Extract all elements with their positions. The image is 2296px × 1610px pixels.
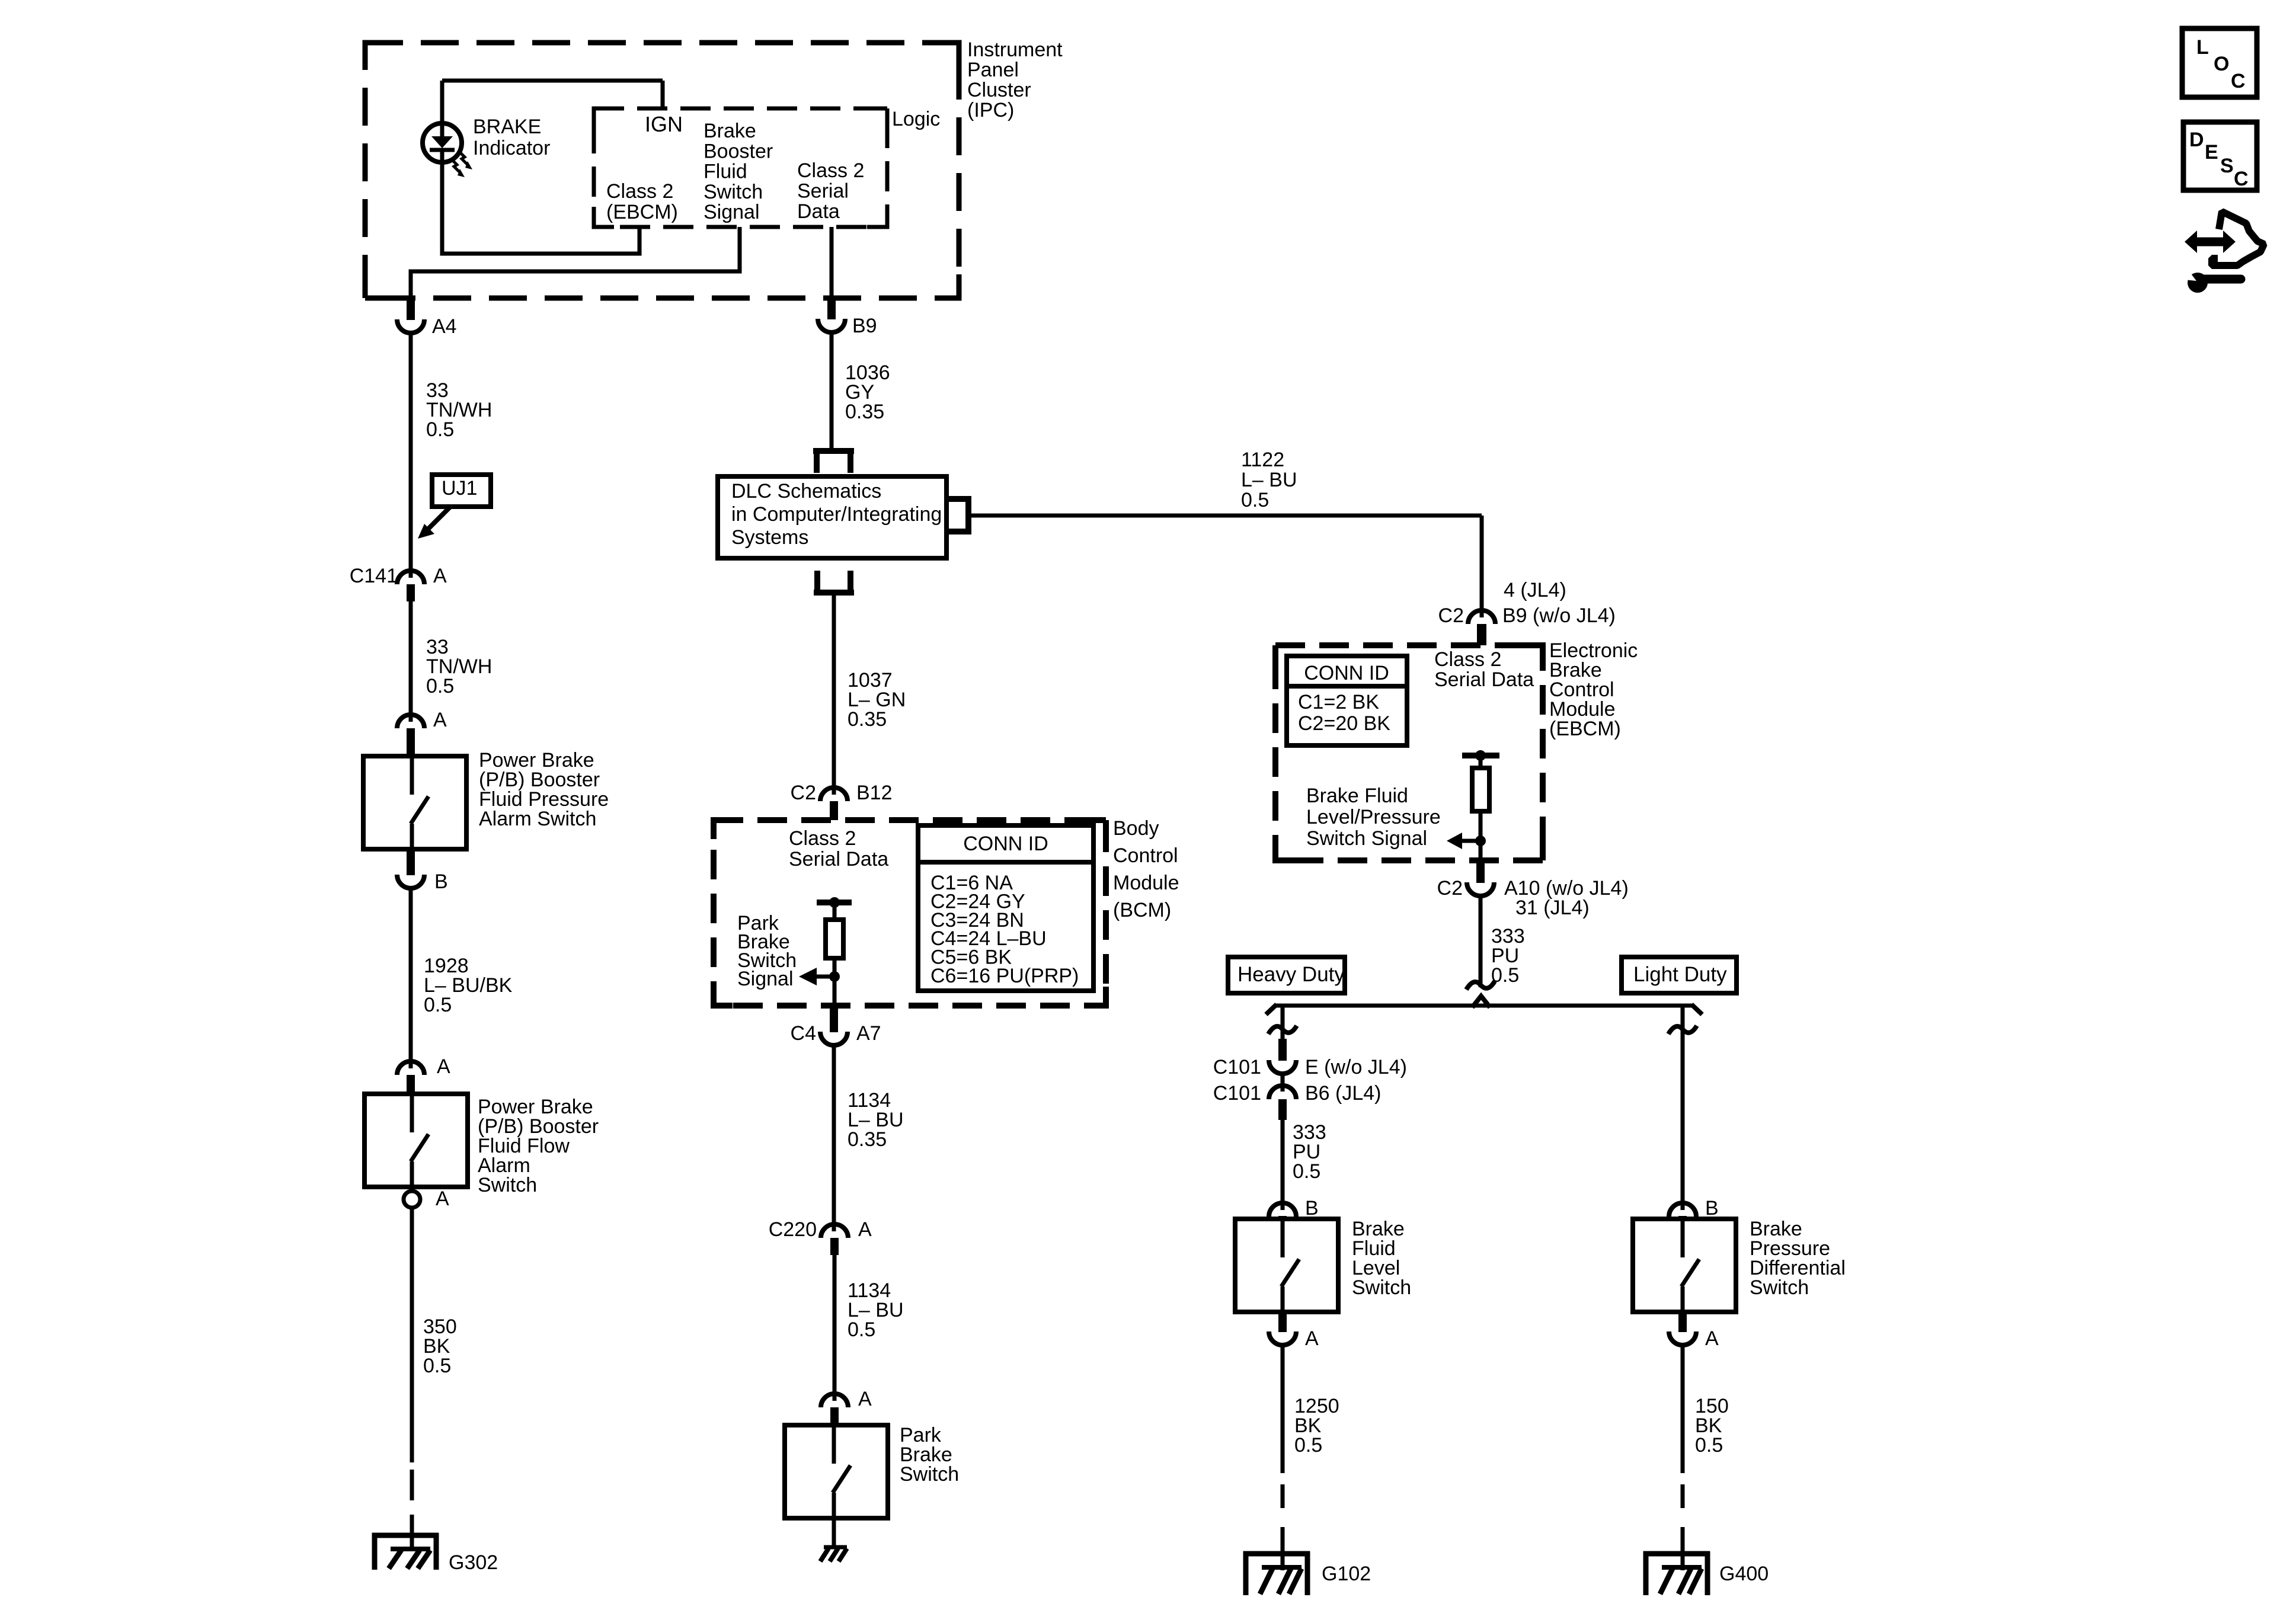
svg-text:Body: Body	[1113, 817, 1159, 840]
svg-text:0.5: 0.5	[848, 1318, 875, 1341]
svg-text:Indicator: Indicator	[473, 137, 550, 159]
svg-text:Logic: Logic	[892, 108, 940, 130]
svg-text:Serial Data: Serial Data	[789, 848, 888, 870]
svg-text:G400: G400	[1719, 1563, 1769, 1585]
svg-text:S: S	[2220, 155, 2234, 177]
svg-text:Brake: Brake	[703, 120, 756, 142]
svg-text:Signal: Signal	[737, 968, 794, 990]
svg-text:1122: 1122	[1241, 449, 1284, 471]
svg-text:A: A	[1705, 1327, 1719, 1350]
svg-text:Switch: Switch	[1750, 1276, 1809, 1299]
svg-text:G302: G302	[449, 1551, 498, 1574]
svg-text:0.35: 0.35	[845, 401, 884, 423]
svg-text:A4: A4	[432, 315, 457, 338]
svg-text:B12: B12	[856, 782, 893, 804]
svg-text:Class 2: Class 2	[797, 159, 864, 182]
svg-text:Switch: Switch	[703, 181, 763, 203]
svg-text:0.5: 0.5	[1293, 1160, 1320, 1183]
svg-text:UJ1: UJ1	[442, 477, 477, 500]
svg-text:D: D	[2189, 129, 2204, 151]
svg-text:(BCM): (BCM)	[1113, 899, 1171, 921]
svg-text:C1=2 BK: C1=2 BK	[1298, 691, 1379, 713]
svg-text:Instrument: Instrument	[967, 39, 1063, 61]
svg-text:Serial Data: Serial Data	[1434, 668, 1534, 691]
svg-text:Switch: Switch	[1352, 1276, 1411, 1299]
svg-text:A: A	[433, 565, 447, 587]
svg-text:Class 2: Class 2	[789, 827, 856, 850]
svg-text:Light Duty: Light Duty	[1633, 963, 1727, 986]
svg-text:C: C	[2234, 168, 2249, 190]
svg-text:A: A	[858, 1388, 872, 1410]
svg-text:Heavy Duty: Heavy Duty	[1237, 963, 1345, 986]
svg-text:0.5: 0.5	[1241, 489, 1269, 511]
svg-text:0.5: 0.5	[1294, 1434, 1322, 1457]
svg-text:Control: Control	[1113, 844, 1178, 867]
svg-text:Module: Module	[1113, 872, 1179, 894]
svg-text:(EBCM): (EBCM)	[1549, 718, 1621, 740]
svg-text:0.5: 0.5	[423, 1355, 451, 1377]
svg-text:Class 2: Class 2	[1434, 648, 1501, 671]
svg-text:CONN ID: CONN ID	[963, 833, 1048, 855]
svg-text:Serial: Serial	[797, 180, 849, 203]
svg-text:in Computer/Integrating: in Computer/Integrating	[731, 503, 942, 526]
svg-text:B: B	[1705, 1197, 1719, 1219]
svg-text:B6 (JL4): B6 (JL4)	[1305, 1082, 1382, 1105]
svg-text:Signal: Signal	[703, 201, 760, 223]
svg-text:0.35: 0.35	[848, 1128, 887, 1151]
svg-text:C2: C2	[791, 782, 816, 804]
svg-text:DLC Schematics: DLC Schematics	[731, 480, 881, 502]
svg-text:C141: C141	[350, 565, 398, 587]
svg-text:A: A	[433, 709, 447, 731]
svg-text:(IPC): (IPC)	[967, 99, 1014, 121]
svg-text:Level/Pressure: Level/Pressure	[1306, 806, 1441, 828]
svg-text:C2: C2	[1437, 877, 1463, 900]
svg-text:BRAKE: BRAKE	[473, 116, 541, 138]
svg-text:C2: C2	[1438, 604, 1464, 627]
svg-text:Cluster: Cluster	[967, 79, 1031, 101]
svg-text:CONN ID: CONN ID	[1304, 662, 1389, 684]
svg-text:C2=20 BK: C2=20 BK	[1298, 712, 1390, 735]
svg-text:(EBCM): (EBCM)	[606, 201, 678, 223]
svg-text:0.35: 0.35	[848, 708, 887, 731]
svg-text:Switch: Switch	[478, 1174, 537, 1196]
svg-text:Switch: Switch	[900, 1463, 959, 1486]
svg-text:Brake Fluid: Brake Fluid	[1306, 785, 1408, 807]
svg-text:IGN: IGN	[645, 112, 683, 136]
svg-text:0.5: 0.5	[1695, 1434, 1723, 1457]
svg-text:Alarm Switch: Alarm Switch	[479, 808, 596, 830]
svg-text:C220: C220	[769, 1218, 817, 1241]
svg-text:A: A	[1305, 1327, 1319, 1350]
svg-text:G102: G102	[1322, 1563, 1371, 1585]
svg-text:0.5: 0.5	[424, 994, 452, 1016]
svg-text:Booster: Booster	[703, 140, 773, 162]
svg-text:B: B	[1305, 1197, 1319, 1219]
svg-text:L: L	[2196, 36, 2209, 59]
svg-text:B9 (w/o JL4): B9 (w/o JL4)	[1502, 604, 1616, 627]
svg-text:0.5: 0.5	[426, 418, 454, 441]
svg-text:C101: C101	[1213, 1082, 1261, 1105]
svg-text:Panel: Panel	[967, 59, 1019, 81]
svg-text:O: O	[2214, 53, 2229, 75]
svg-text:B9: B9	[852, 315, 877, 337]
svg-text:C101: C101	[1213, 1056, 1261, 1078]
svg-text:Data: Data	[797, 200, 840, 223]
svg-text:B: B	[434, 870, 448, 893]
svg-text:Systems: Systems	[731, 526, 808, 549]
svg-text:C6=16 PU(PRP): C6=16 PU(PRP)	[930, 965, 1079, 987]
svg-text:E: E	[2205, 141, 2218, 164]
svg-text:L– BU: L– BU	[1241, 469, 1297, 491]
svg-text:A: A	[858, 1218, 872, 1241]
svg-text:A: A	[436, 1188, 449, 1210]
svg-text:E (w/o JL4): E (w/o JL4)	[1305, 1056, 1407, 1078]
svg-text:Fluid: Fluid	[703, 161, 747, 183]
svg-text:4 (JL4): 4 (JL4)	[1504, 579, 1566, 601]
svg-text:A7: A7	[856, 1022, 881, 1045]
svg-text:C4: C4	[791, 1022, 816, 1045]
svg-text:Class 2: Class 2	[606, 180, 673, 203]
svg-text:C: C	[2231, 70, 2246, 92]
svg-text:Switch Signal: Switch Signal	[1306, 827, 1427, 850]
svg-text:A: A	[437, 1055, 450, 1078]
svg-text:0.5: 0.5	[426, 675, 454, 697]
svg-text:31 (JL4): 31 (JL4)	[1515, 897, 1590, 919]
